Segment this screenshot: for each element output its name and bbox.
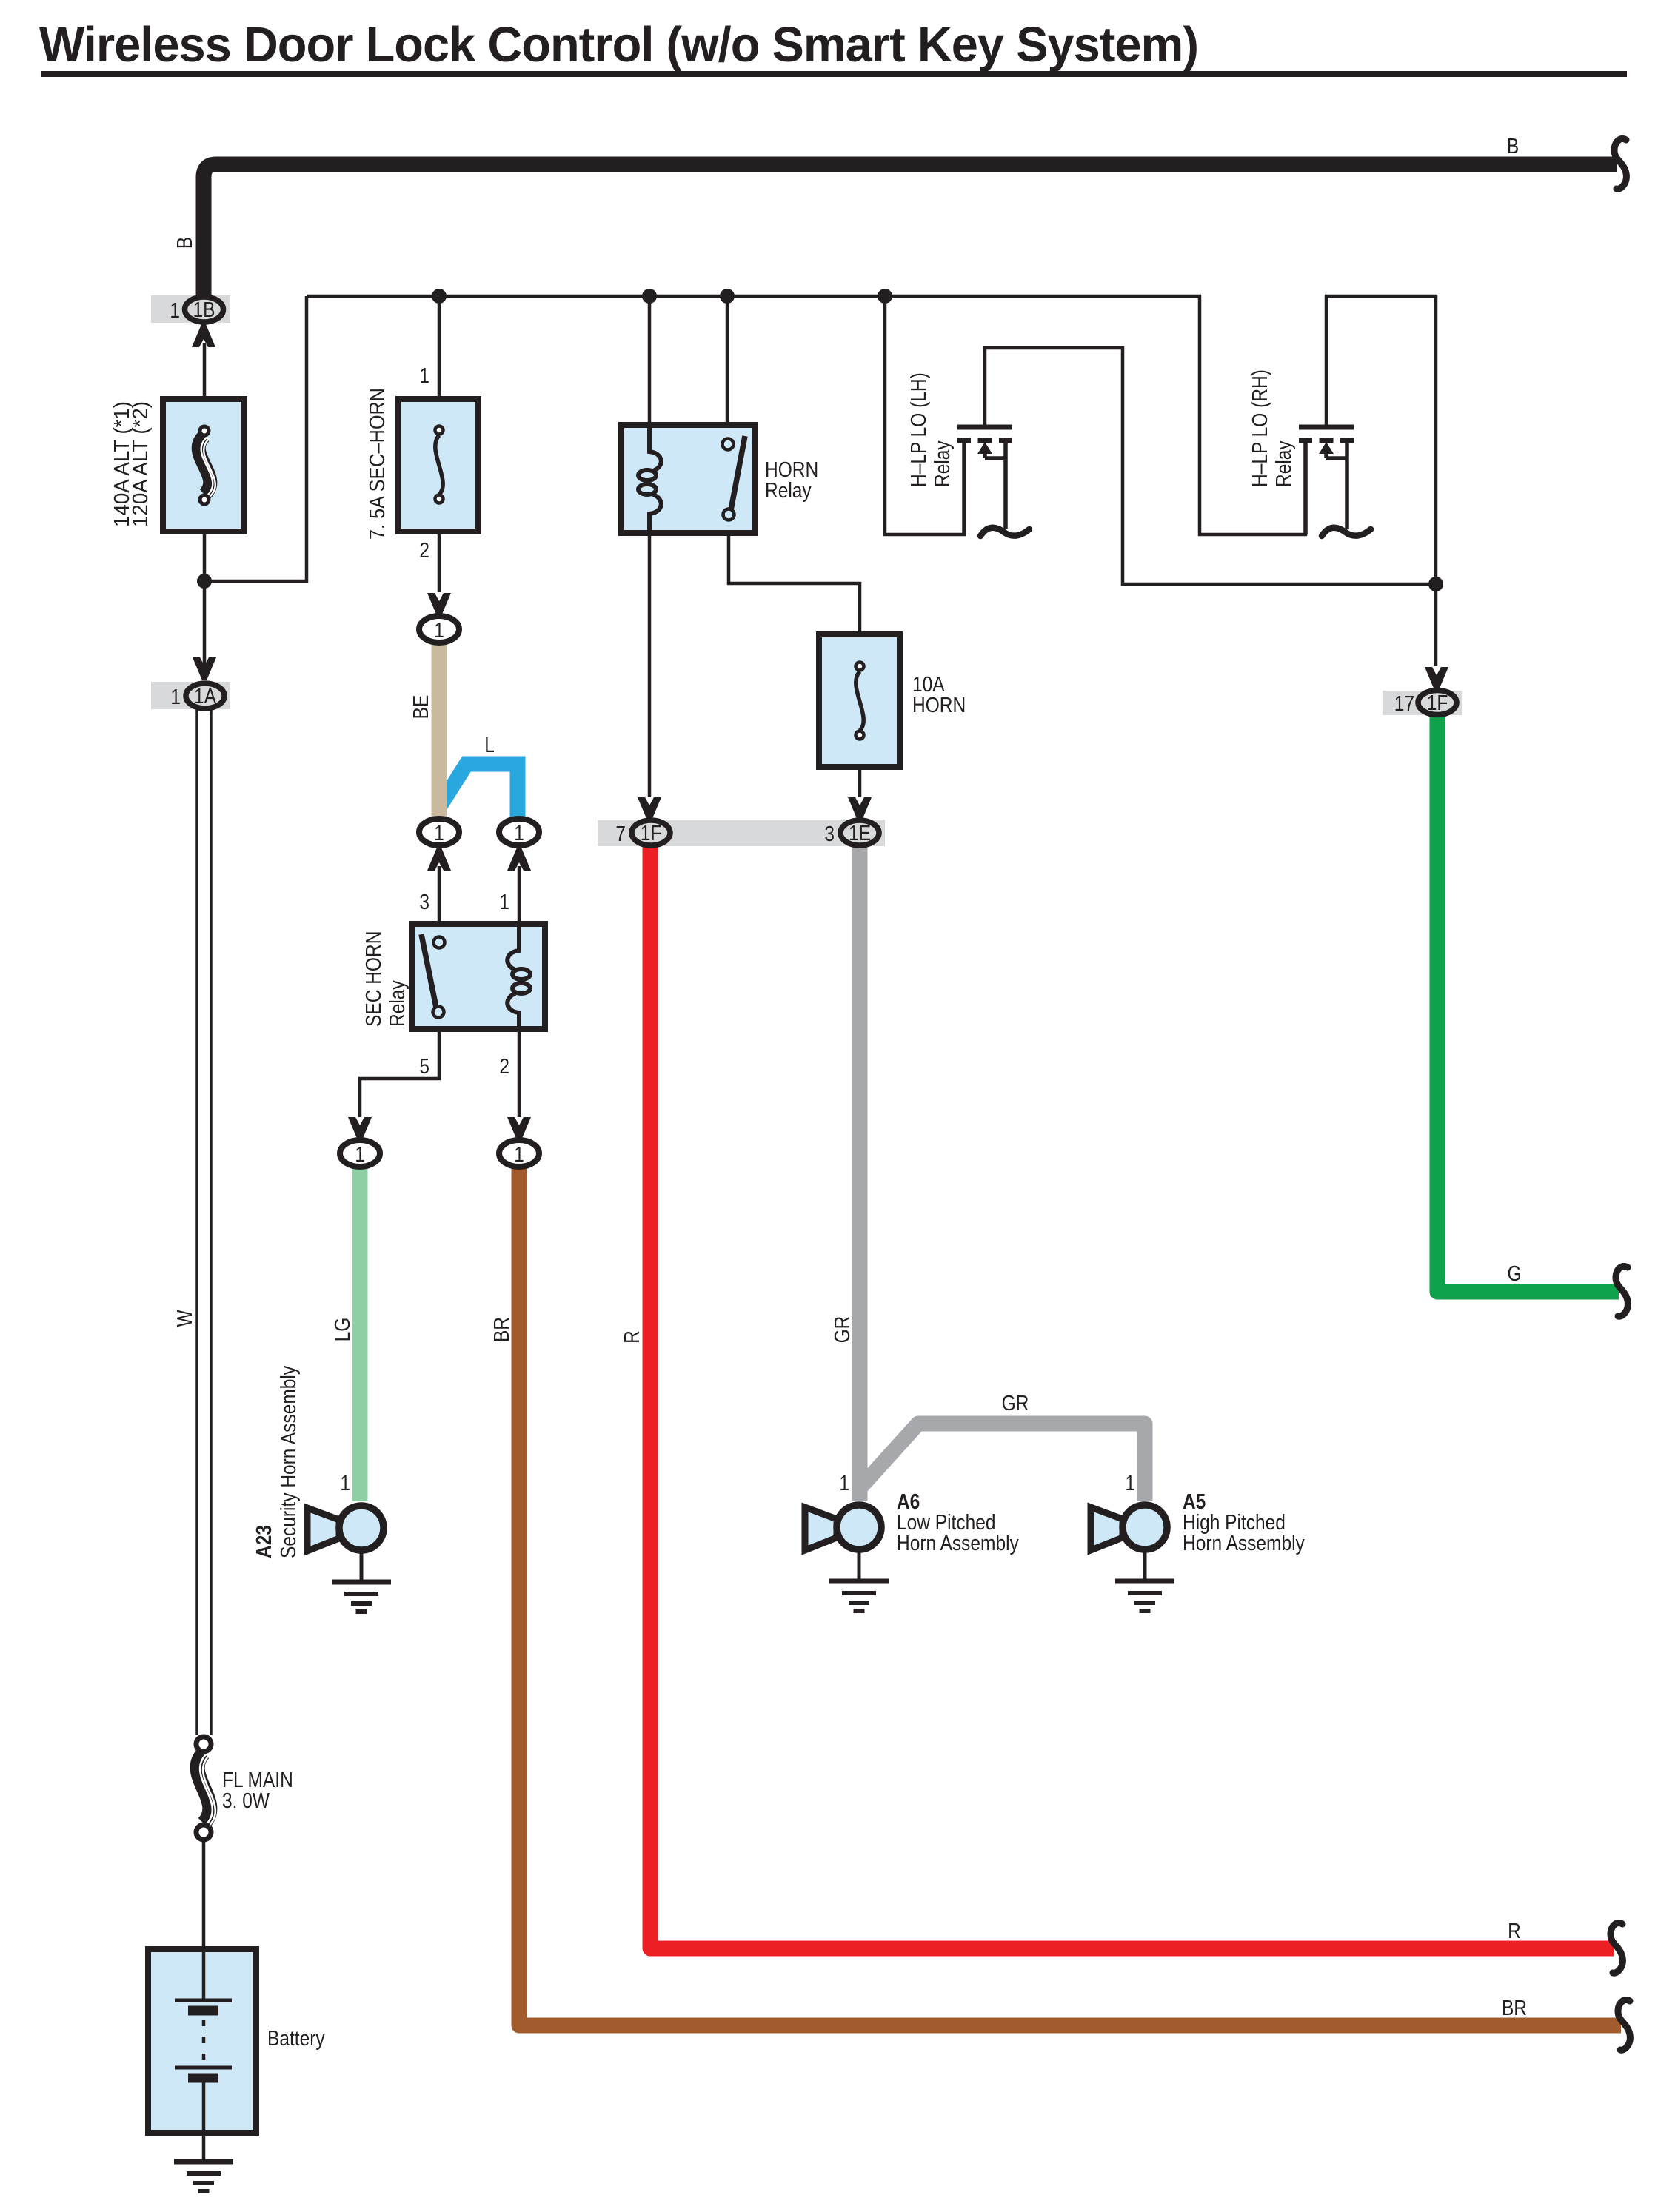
wire 10A fuse to 1E arrow	[858, 765, 862, 797]
wire HORN relay switch to 10A fuse	[729, 520, 860, 637]
svg-text:Battery: Battery	[267, 2027, 325, 2051]
svg-text:1A: 1A	[194, 685, 217, 708]
wire break BR	[1618, 2000, 1630, 2050]
wire break R	[1611, 1923, 1622, 1973]
horn A23	[307, 1506, 391, 1612]
connector 1B oval	[185, 297, 224, 322]
svg-text:1: 1	[170, 299, 180, 323]
splice oval right	[499, 1140, 539, 1167]
wire junction to 17-1F arrow	[1434, 584, 1438, 666]
connector 1F oval	[1418, 691, 1457, 715]
svg-text:Relay: Relay	[931, 440, 955, 487]
svg-text:Horn Assembly: Horn Assembly	[897, 1532, 1019, 1555]
svg-text:B: B	[1507, 135, 1519, 158]
battery ground	[174, 2162, 233, 2191]
connector band	[598, 820, 885, 846]
horn A5	[1091, 1505, 1174, 1611]
fuse ALT box	[163, 399, 244, 532]
arrow down into right splice	[507, 1117, 531, 1140]
wire R red	[650, 845, 1614, 1948]
svg-text:1: 1	[170, 686, 181, 709]
svg-text:5: 5	[419, 1055, 429, 1079]
fuse 7.5A element	[435, 435, 443, 495]
wire BE beige	[432, 641, 447, 822]
wire bus tap to 7.5A fuse	[438, 296, 441, 401]
wire FL MAIN to battery	[202, 1841, 206, 1949]
wire ALT fuse to 1A	[203, 529, 207, 679]
wire bus tap to HORN relay coil	[648, 296, 652, 453]
svg-text:Wireless Door Lock Control (w/: Wireless Door Lock Control (w/o Smart Ke…	[39, 17, 1198, 73]
wire splice to SEC HORN relay pin1	[518, 866, 521, 927]
wire BR brown	[519, 1167, 1621, 2025]
svg-text:R: R	[1508, 1920, 1521, 1943]
wire HORN relay coil to 1F arrow	[648, 503, 652, 797]
svg-text:LG: LG	[331, 1318, 355, 1342]
wire LH relay drain run	[985, 348, 1436, 584]
svg-text:1: 1	[355, 1143, 365, 1167]
connector 1A band	[151, 682, 230, 709]
relay H-LP LO RH MOSFET	[1299, 427, 1371, 536]
svg-text:7. 5A SEC–HORN: 7. 5A SEC–HORN	[366, 388, 390, 540]
wire GR branch and bridge to A5	[862, 1424, 1145, 1501]
connector band	[1383, 691, 1462, 715]
wire W white double line	[197, 709, 211, 1735]
svg-text:7: 7	[615, 822, 626, 846]
svg-text:Relay: Relay	[765, 479, 812, 503]
svg-text:SEC HORN: SEC HORN	[362, 931, 386, 1027]
junction bus / LH relay gate tap	[878, 289, 892, 304]
wire B thick black	[204, 164, 1617, 296]
battery box	[148, 1949, 256, 2133]
splice oval left	[340, 1140, 380, 1167]
junction bus / 7.5A fuse tap	[432, 289, 447, 304]
wire SEC HORN relay pin5 down-left	[360, 1026, 439, 1117]
relay HORN coil	[638, 428, 661, 530]
svg-text:Relay: Relay	[386, 980, 410, 1027]
wire L blue	[438, 764, 518, 820]
svg-text:HORN: HORN	[912, 694, 966, 717]
svg-text:BE: BE	[410, 695, 433, 720]
svg-text:1: 1	[499, 891, 509, 914]
wire RH relay drain run	[1326, 296, 1436, 584]
arrow into splice below 7.5A fuse	[427, 593, 451, 616]
arrow into 1A	[193, 657, 216, 680]
svg-text:L: L	[484, 734, 495, 757]
svg-text:GR: GR	[831, 1316, 855, 1344]
svg-text:2: 2	[499, 1055, 509, 1079]
wire LG light green	[352, 1167, 368, 1501]
svg-text:W: W	[173, 1310, 197, 1327]
svg-text:G: G	[1507, 1262, 1521, 1286]
arrow down into left splice	[348, 1117, 372, 1140]
svg-text:1B: 1B	[193, 298, 215, 322]
svg-text:1: 1	[340, 1472, 350, 1495]
svg-text:A23: A23	[253, 1525, 276, 1558]
splice oval 1 below fuse	[419, 616, 459, 643]
title underline	[41, 71, 1627, 77]
wire 7.5A fuse to splice arrow	[438, 529, 441, 592]
svg-text:Security Horn Assembly: Security Horn Assembly	[277, 1365, 301, 1558]
splice oval left	[419, 819, 459, 845]
connector 1B band	[151, 295, 230, 323]
wire bus y400 with RH gate loop	[307, 296, 1306, 534]
arrow into 1F	[638, 797, 661, 820]
relay SEC HORN box	[412, 924, 545, 1029]
svg-text:Relay: Relay	[1272, 440, 1296, 487]
svg-text:H–LP LO (LH): H–LP LO (LH)	[907, 372, 931, 487]
horn A6	[805, 1505, 889, 1611]
junction bus / HORN relay switch tap	[720, 289, 735, 304]
battery internals	[175, 1949, 232, 2133]
svg-text:BR: BR	[490, 1317, 514, 1342]
arrow up into left splice	[427, 848, 451, 871]
svg-text:H–LP LO (RH): H–LP LO (RH)	[1249, 369, 1272, 487]
relay HORN switch	[731, 436, 745, 510]
relay H-LP LO LH MOSFET	[957, 427, 1029, 536]
svg-text:1: 1	[419, 364, 429, 388]
svg-text:3: 3	[824, 822, 835, 846]
connector 1E oval	[840, 820, 879, 845]
svg-text:R: R	[621, 1330, 644, 1344]
relay SEC HORN coil	[507, 927, 530, 1026]
svg-text:1F: 1F	[1427, 691, 1448, 715]
svg-text:1: 1	[514, 1143, 524, 1167]
connector 1F oval	[632, 820, 670, 845]
wire 1B arrow to ALT fuse	[203, 343, 207, 401]
arrow into 17-1F	[1425, 667, 1448, 690]
svg-text:3: 3	[419, 891, 429, 914]
arrow up into right splice	[507, 848, 531, 871]
fuse 10A element	[856, 671, 863, 731]
FL MAIN element	[198, 1753, 210, 1823]
wire break B	[1614, 138, 1626, 189]
svg-text:2: 2	[419, 539, 429, 563]
wire LH relay gate loop	[885, 296, 964, 534]
connector 1A oval	[186, 683, 224, 708]
wire left riser to ALT junction	[204, 296, 307, 581]
svg-text:Horn Assembly: Horn Assembly	[1183, 1532, 1305, 1555]
junction ALT output / bus riser	[197, 574, 212, 589]
wire battery to ground	[202, 2133, 206, 2160]
svg-text:1: 1	[434, 822, 444, 845]
relay HORN box	[621, 425, 755, 533]
wire SEC HORN relay pin2 down	[518, 1026, 521, 1117]
svg-text:1F: 1F	[641, 822, 662, 845]
wire G green	[1437, 714, 1619, 1292]
junction relay drains / 1F pin17 feed	[1428, 577, 1443, 591]
svg-text:B: B	[173, 237, 197, 249]
svg-text:17: 17	[1394, 692, 1414, 716]
svg-text:GR: GR	[1002, 1392, 1029, 1415]
relay SEC HORN switch	[421, 934, 436, 1008]
fuse ALT element	[198, 436, 210, 495]
wire bus tap to HORN relay switch	[726, 296, 729, 439]
arrow into 1B	[192, 324, 215, 347]
svg-text:BR: BR	[1502, 1997, 1527, 2020]
wire splice to SEC HORN relay pin3	[438, 866, 441, 927]
splice oval right	[499, 819, 539, 845]
wire break G	[1616, 1266, 1628, 1316]
junction bus / HORN relay coil tap	[642, 289, 657, 304]
svg-text:3. 0W: 3. 0W	[222, 1789, 270, 1813]
svg-text:1: 1	[434, 619, 444, 643]
fuse 7.5A box	[398, 399, 478, 532]
svg-text:120A ALT (*2): 120A ALT (*2)	[129, 401, 153, 527]
wire GR gray to A6	[852, 845, 868, 1501]
svg-text:1E: 1E	[849, 822, 871, 845]
svg-text:1: 1	[1125, 1472, 1135, 1495]
arrow into 1E	[848, 797, 872, 820]
svg-text:1: 1	[514, 822, 524, 845]
fuse 10A box	[819, 634, 900, 767]
svg-text:1: 1	[839, 1472, 849, 1495]
